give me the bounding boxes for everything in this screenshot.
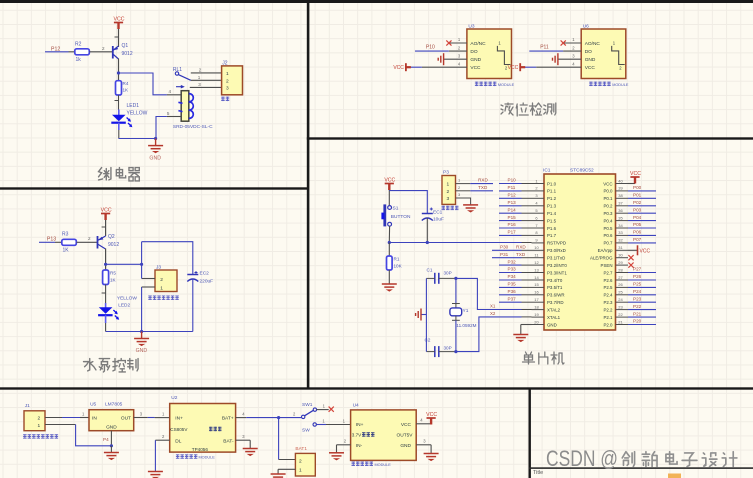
svg-text:DL: DL	[175, 438, 181, 444]
wire pin5 to gnd rail	[156, 117, 167, 139]
svg-text:37: 37	[618, 201, 623, 206]
svg-text:P20: P20	[633, 319, 642, 324]
svg-text:36: 36	[618, 208, 623, 213]
svg-text:GND: GND	[547, 322, 557, 327]
svg-text:17: 17	[534, 297, 539, 302]
svg-text:PSEN: PSEN	[601, 263, 613, 268]
connector J1 solar input	[24, 411, 45, 431]
label under J2	[221, 97, 229, 101]
svg-text:2: 2	[572, 45, 575, 50]
svg-text:1: 1	[447, 182, 450, 188]
svg-text:J3: J3	[156, 265, 161, 271]
svg-text:P2.6: P2.6	[603, 278, 613, 283]
svg-text:P0.3: P0.3	[603, 211, 613, 216]
watermark 创新电子设计	[622, 452, 737, 467]
svg-text:26: 26	[618, 282, 623, 287]
svg-text:27: 27	[618, 275, 623, 280]
svg-text:EC2: EC2	[200, 271, 210, 277]
header pin1 wire RXD	[456, 178, 494, 184]
wire to ground (pump)	[141, 332, 143, 339]
no-connect X on U3 AO	[446, 40, 451, 45]
wire gnd rail to cap bottom	[142, 331, 193, 333]
svg-text:5: 5	[167, 111, 170, 116]
wire input to R2	[45, 51, 69, 53]
capacitor EC1 10uF	[422, 208, 433, 243]
svg-text:VCC: VCC	[630, 171, 641, 177]
wire RST rail	[389, 242, 521, 244]
svg-text:J1: J1	[25, 403, 30, 409]
wire caps left rail	[425, 278, 427, 351]
svg-text:C2: C2	[425, 338, 431, 343]
wire gnd rail	[119, 138, 156, 140]
svg-text:J2: J2	[222, 61, 228, 67]
svg-text:2: 2	[162, 434, 165, 439]
svg-text:5: 5	[535, 208, 538, 213]
resistor R1 10K	[387, 256, 393, 270]
svg-text:2: 2	[226, 78, 229, 84]
svg-text:39: 39	[618, 186, 623, 191]
svg-text:9012: 9012	[108, 242, 119, 248]
wire P36	[499, 294, 522, 296]
svg-text:33: 33	[618, 230, 623, 235]
svg-text:S1: S1	[393, 206, 399, 212]
wire XTAL2	[456, 278, 522, 309]
svg-text:P26: P26	[633, 274, 642, 279]
svg-text:AO/NC: AO/NC	[585, 41, 601, 47]
svg-text:22: 22	[618, 312, 623, 317]
svg-text:1k: 1k	[76, 57, 82, 63]
svg-text:30P: 30P	[444, 271, 452, 276]
svg-text:LED2: LED2	[118, 303, 130, 309]
svg-text:2: 2	[199, 68, 202, 73]
junction button bottom	[388, 241, 391, 244]
svg-text:U2: U2	[171, 395, 177, 401]
svg-text:1: 1	[82, 412, 85, 417]
svg-text:P10: P10	[508, 178, 517, 183]
svg-text:1: 1	[535, 178, 538, 183]
svg-text:OUT5V: OUT5V	[397, 433, 414, 439]
svg-text:12: 12	[534, 260, 539, 265]
svg-text:2: 2	[458, 45, 461, 50]
connector J2	[222, 66, 243, 95]
svg-text:3: 3	[242, 434, 245, 439]
svg-text:2: 2	[160, 277, 163, 283]
svg-text:P1.1: P1.1	[547, 189, 557, 194]
wire R1 to ground	[388, 270, 390, 284]
panel divider under relay panel	[0, 187, 309, 189]
VCC power port (pump)	[101, 214, 110, 221]
svg-text:GND: GND	[400, 443, 411, 449]
svg-text:15: 15	[534, 282, 539, 287]
svg-text:1: 1	[198, 75, 201, 80]
no-connect X (SW1 up)	[329, 407, 334, 412]
svg-text:30: 30	[618, 253, 623, 258]
svg-text:32: 32	[618, 238, 623, 243]
svg-text:STC89C52: STC89C52	[570, 168, 594, 174]
label 下载接口	[442, 206, 459, 210]
svg-text:28: 28	[618, 267, 623, 272]
ground (header)	[463, 205, 478, 213]
wire top rail to EC2	[142, 242, 193, 275]
svg-text:23: 23	[618, 304, 623, 309]
ground GND (relay)	[148, 146, 163, 154]
svg-text:VCC: VCC	[114, 17, 125, 23]
wire U2 BAT- to ground	[236, 434, 251, 449]
svg-text:4: 4	[420, 418, 423, 423]
svg-text:1: 1	[343, 418, 346, 423]
charger module U2	[170, 404, 236, 453]
label 太阳能电池板接口	[23, 434, 58, 438]
svg-text:P03: P03	[633, 207, 642, 212]
svg-text:7: 7	[535, 223, 538, 228]
title block orange mark	[668, 474, 681, 478]
ground (BAT1)	[271, 474, 286, 478]
svg-text:8: 8	[535, 230, 538, 235]
svg-text:VCC: VCC	[401, 422, 412, 428]
wire LED2 cathode to gnd rail	[105, 315, 107, 323]
svg-text:P04: P04	[633, 215, 642, 220]
svg-text:P35: P35	[508, 282, 517, 287]
wire P10	[499, 183, 522, 185]
wire P20	[628, 324, 656, 326]
transistor Q2 PNP 9012	[98, 236, 106, 249]
ground (U2 BAT-)	[243, 449, 258, 457]
boost module U4	[351, 410, 417, 461]
svg-text:1: 1	[458, 37, 461, 42]
no-connect X on PSEN	[628, 263, 633, 268]
svg-text:P3.0/RxD: P3.0/RxD	[547, 248, 566, 253]
switch SW1	[302, 408, 317, 426]
ground (U4 IN-)	[329, 453, 344, 461]
svg-text:XTAL1: XTAL1	[547, 315, 561, 320]
crystal Y1 11.0592M	[450, 278, 462, 351]
title 液位检测	[501, 103, 556, 116]
svg-text:CSDN @: CSDN @	[546, 446, 618, 471]
svg-text:1K: 1K	[110, 278, 117, 283]
svg-text:2: 2	[88, 236, 91, 241]
svg-text:P12: P12	[508, 193, 517, 198]
svg-text:P34: P34	[508, 274, 517, 279]
wire P37	[499, 301, 522, 303]
svg-text:P2.3: P2.3	[603, 300, 613, 305]
no-connect X on U6 AO	[561, 40, 566, 45]
svg-text:P0.6: P0.6	[603, 233, 613, 238]
wire LED1 cathode to gnd rail	[118, 123, 120, 130]
wire U4 GND to ground	[416, 438, 431, 453]
wire R4 to LED1	[118, 95, 120, 110]
junction battery tap	[277, 416, 280, 419]
svg-text:MODULE: MODULE	[498, 83, 515, 87]
svg-text:1: 1	[323, 403, 326, 408]
svg-text:1: 1	[572, 37, 575, 42]
svg-text:P13: P13	[508, 200, 517, 205]
svg-text:4: 4	[458, 61, 461, 66]
svg-text:11: 11	[534, 253, 539, 258]
svg-text:P33: P33	[508, 267, 517, 272]
label 锂电池升压	[352, 462, 374, 466]
wire P01	[628, 197, 656, 199]
wire P25	[628, 286, 656, 288]
svg-text:SRD-05VDC-SL-C: SRD-05VDC-SL-C	[173, 124, 213, 130]
wire R5 to LED2	[105, 285, 107, 304]
svg-text:P3.2/INT0: P3.2/INT0	[547, 263, 567, 268]
VCC power port (EA pin)	[637, 245, 639, 255]
wire U5 GND down	[110, 431, 112, 446]
header pin2 wire TXD	[456, 185, 494, 191]
ground (U5)	[104, 453, 119, 461]
wire P30	[492, 249, 522, 251]
LED LED2 YELLOW	[98, 303, 119, 320]
svg-text:R1: R1	[394, 257, 400, 262]
svg-text:DO: DO	[470, 49, 477, 55]
wire DO net P10	[415, 45, 467, 51]
svg-text:11.0592M: 11.0592M	[456, 323, 476, 328]
svg-text:P2.1: P2.1	[603, 315, 613, 320]
svg-text:4: 4	[242, 411, 245, 416]
wire R2 to Q1 base, pin 2	[89, 51, 112, 53]
svg-text:18: 18	[534, 304, 539, 309]
svg-text:P0.5: P0.5	[603, 226, 613, 231]
svg-text:BUTTON: BUTTON	[391, 214, 411, 220]
wire XTAL1	[456, 317, 522, 352]
sheet top border	[0, 0, 753, 3]
svg-text:P4: P4	[103, 437, 109, 442]
svg-text:VCC: VCC	[384, 178, 395, 184]
svg-text:OUT: OUT	[121, 416, 131, 422]
svg-text:X2: X2	[490, 311, 496, 316]
svg-text:MODULE: MODULE	[612, 83, 629, 87]
U3 GND pin wire	[444, 53, 467, 59]
U3 pin names	[470, 41, 486, 71]
svg-text:P36: P36	[508, 289, 517, 294]
wire P14	[499, 212, 522, 214]
wire P12	[499, 197, 522, 199]
svg-text:40: 40	[618, 178, 623, 183]
wire collector rail to J3 pin2	[141, 242, 143, 279]
svg-text:10uF: 10uF	[433, 217, 444, 223]
wire J1 pin1 to gnd rail	[45, 425, 111, 446]
capacitor C1 30P	[426, 273, 456, 284]
svg-text:P2.0: P2.0	[603, 322, 613, 327]
resistor R4	[116, 81, 122, 95]
wire Q2 collector down	[105, 249, 107, 271]
svg-text:VCC: VCC	[640, 248, 651, 254]
svg-text:P02: P02	[633, 200, 642, 205]
wire Q1 collector down	[118, 59, 120, 81]
wire J1 pin2 to U5 IN	[45, 412, 89, 418]
ground GND (pump)	[134, 339, 149, 347]
svg-text:2: 2	[458, 185, 461, 190]
button S1	[381, 204, 391, 242]
wire P21	[628, 316, 656, 318]
svg-text:P27: P27	[633, 267, 642, 272]
VCC power port (relay)	[114, 23, 123, 30]
svg-text:2: 2	[344, 438, 347, 443]
U6 VCC pin wire	[520, 61, 581, 67]
header P3 download port	[442, 176, 456, 205]
panel divider above power panel	[0, 387, 753, 389]
wire P13	[499, 205, 522, 207]
title 水泵控制	[84, 359, 139, 372]
wire VCC to Q1 emitter	[118, 29, 120, 47]
svg-text:24: 24	[618, 297, 623, 302]
svg-text:4: 4	[169, 89, 172, 94]
relay coil SRD-05VDC-SL-C	[178, 91, 193, 122]
svg-text:RXD: RXD	[516, 245, 526, 250]
label under U3	[475, 82, 497, 86]
wire left rail to ground	[421, 314, 426, 316]
ground (module U3)	[438, 53, 443, 65]
wire U2 BAT+ to switch	[236, 411, 302, 417]
wire U4 IN- to ground	[337, 438, 351, 452]
svg-text:GND: GND	[106, 425, 117, 431]
svg-text:P2.2: P2.2	[603, 307, 613, 312]
svg-text:P30: P30	[500, 245, 509, 250]
title 继电器	[99, 168, 140, 181]
svg-text:30P: 30P	[444, 346, 452, 351]
svg-text:1K: 1K	[123, 88, 130, 93]
resistor R3	[62, 239, 77, 245]
svg-text:U6: U6	[583, 24, 589, 30]
svg-text:VCC: VCC	[101, 208, 112, 214]
header pin3 wire to ground	[456, 192, 471, 205]
MCU pin names left	[547, 181, 567, 327]
svg-text:1: 1	[160, 286, 163, 292]
svg-text:R2: R2	[75, 42, 82, 48]
svg-text:P16: P16	[508, 222, 517, 227]
U3 pin 1 stub + no-connect	[449, 37, 467, 43]
svg-text:20: 20	[534, 319, 539, 324]
svg-text:P24: P24	[633, 289, 642, 294]
svg-text:ALE/PROG: ALE/PROG	[590, 256, 613, 261]
svg-text:CS805V: CS805V	[170, 427, 188, 432]
wire P07	[628, 242, 656, 244]
svg-text:P1.3: P1.3	[547, 204, 557, 209]
svg-text:Q2: Q2	[108, 234, 115, 240]
wire P31	[492, 257, 522, 259]
svg-text:BAT1: BAT1	[295, 446, 307, 452]
J3 pin1 wire	[142, 286, 155, 288]
svg-text:VCC: VCC	[508, 65, 519, 71]
wire P03	[628, 212, 656, 214]
svg-text:LM7805: LM7805	[105, 402, 123, 408]
svg-text:1: 1	[299, 468, 302, 474]
svg-text:13: 13	[534, 267, 539, 272]
wire MCU pin40 to VCC	[628, 183, 635, 185]
svg-text:P11: P11	[508, 185, 516, 190]
svg-text:TXD: TXD	[516, 252, 526, 257]
svg-text:P37: P37	[508, 296, 517, 301]
wire P00	[628, 190, 656, 192]
svg-text:P17: P17	[508, 230, 517, 235]
svg-text:GND: GND	[585, 57, 596, 63]
svg-text:BAT+: BAT+	[222, 416, 234, 422]
svg-text:10K: 10K	[394, 264, 403, 269]
wire P16	[499, 227, 522, 229]
svg-text:YELLOW: YELLOW	[117, 296, 137, 302]
wire U5 OUT to U2 IN+	[134, 412, 170, 418]
svg-text:R3: R3	[62, 232, 69, 238]
transistor Q1 PNP 9012	[113, 46, 119, 59]
svg-text:U5: U5	[90, 402, 96, 408]
svg-text:P10: P10	[426, 44, 435, 50]
svg-text:C1: C1	[427, 268, 433, 273]
svg-text:14: 14	[534, 275, 539, 280]
svg-text:P11: P11	[540, 44, 549, 50]
MCU right pin stubs 40-21	[616, 178, 629, 324]
svg-text:P07: P07	[633, 237, 642, 242]
junction gnd rail	[140, 330, 143, 333]
VCC power port (U4 out)	[427, 418, 436, 425]
U6 pin names	[585, 41, 601, 71]
VCC power port (MCU pin40)	[630, 177, 639, 184]
svg-text:P3.1/TxD: P3.1/TxD	[547, 256, 565, 261]
VCC power port (reset)	[385, 184, 394, 191]
svg-text:P22: P22	[633, 304, 642, 309]
svg-text:TP4056: TP4056	[192, 447, 209, 452]
svg-text:IN+: IN+	[356, 422, 364, 428]
svg-text:P2.7: P2.7	[603, 270, 613, 275]
ground (U4)	[424, 454, 439, 462]
svg-text:2: 2	[447, 189, 450, 195]
regulator U5 LM7805	[89, 410, 134, 431]
svg-text:35: 35	[618, 215, 623, 220]
relay coil pin5 wire	[167, 116, 181, 118]
wire P05	[628, 227, 656, 229]
SW1 throw2 wire to U4 IN+	[316, 418, 350, 424]
svg-text:2: 2	[293, 411, 296, 416]
svg-text:9: 9	[535, 238, 538, 243]
svg-text:2: 2	[38, 416, 41, 422]
svg-text:IC1: IC1	[543, 168, 551, 174]
junction gnd rail	[110, 444, 113, 447]
junction EC1 bottom	[426, 241, 429, 244]
svg-text:P14: P14	[508, 207, 517, 212]
svg-text:3: 3	[572, 53, 575, 58]
svg-text:P3.7/RD: P3.7/RD	[547, 300, 564, 305]
wire to R1	[388, 243, 390, 257]
title 单片机	[523, 352, 565, 364]
svg-text:MODULE: MODULE	[199, 456, 216, 460]
label 水泵接线端子	[148, 296, 179, 300]
title block vertical divider	[529, 389, 531, 478]
svg-text:P15: P15	[508, 215, 517, 220]
svg-text:P1.7: P1.7	[547, 233, 557, 238]
liquid level module U6	[581, 29, 626, 79]
emitter pin tick	[115, 36, 119, 38]
svg-text:EA/Vpp: EA/Vpp	[598, 248, 613, 253]
svg-text:P00: P00	[633, 185, 642, 190]
wire P24	[628, 294, 656, 296]
svg-text:IN+: IN+	[175, 416, 183, 422]
svg-text:P1.2: P1.2	[547, 196, 557, 201]
wire P34	[499, 279, 522, 281]
wire P26	[628, 279, 656, 281]
svg-text:AO/NC: AO/NC	[470, 41, 486, 47]
svg-text:4: 4	[535, 201, 538, 206]
svg-text:P1.6: P1.6	[547, 226, 557, 231]
U6 pin 1 stub + no-connect	[563, 37, 581, 43]
svg-text:P1.4: P1.4	[547, 211, 557, 216]
wire P11	[499, 190, 522, 192]
svg-text:3: 3	[198, 82, 201, 87]
svg-text:P21: P21	[633, 311, 642, 316]
ground (module U6)	[553, 53, 558, 65]
resistor R2	[75, 49, 90, 55]
svg-text:19: 19	[534, 312, 539, 317]
LED LED1 YELLOW	[111, 110, 132, 128]
ground (U2 IN-)	[148, 472, 163, 478]
